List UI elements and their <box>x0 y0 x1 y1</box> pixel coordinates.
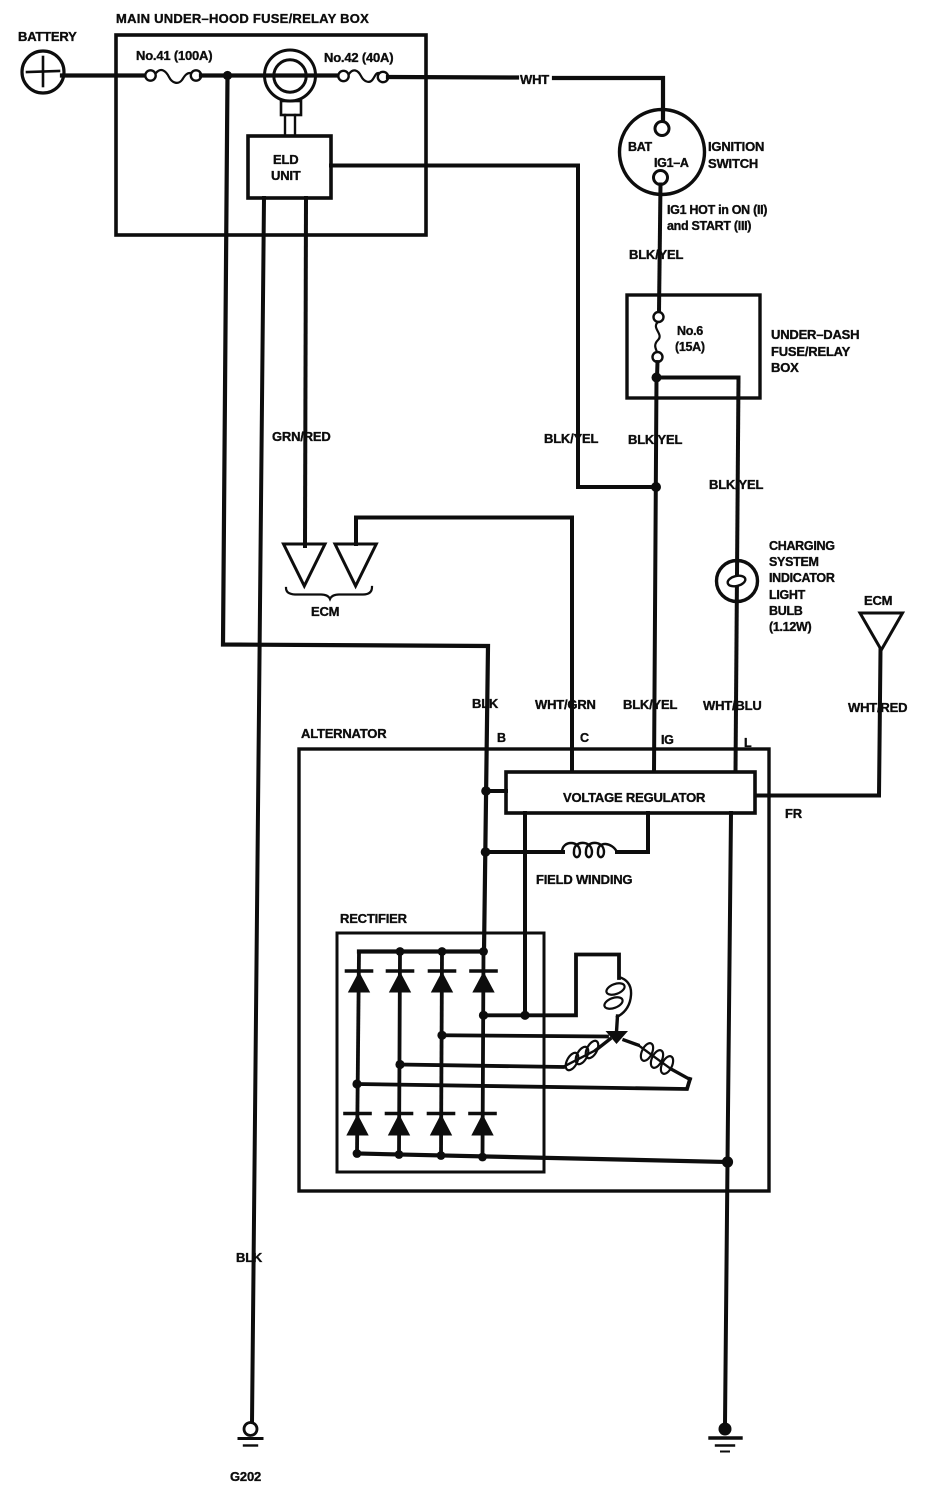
svg-text:ALTERNATOR: ALTERNATOR <box>301 726 387 741</box>
wire ECM triangle2 to alternator C (WHT/GRN) <box>356 518 572 773</box>
wire L branch down through bulb to alternator L <box>736 378 739 773</box>
node leg4 midpoint <box>479 1011 488 1020</box>
node bus leg1 bottom <box>353 1149 362 1158</box>
wire field winding to regulator bottom <box>617 813 648 852</box>
svg-text:WHT: WHT <box>520 72 549 87</box>
svg-text:WHT/BLU: WHT/BLU <box>703 698 762 713</box>
stator left phase coil <box>563 1039 610 1072</box>
diode D3 upper <box>430 971 455 993</box>
wire junction down to IG (BLK/YEL) <box>654 378 657 773</box>
svg-text:IG1 HOT in ON (II): IG1 HOT in ON (II) <box>667 203 767 217</box>
junction node B wire to field winding <box>481 847 491 857</box>
wire fuse42 to WHT label <box>388 75 517 80</box>
svg-text:BLK/YEL: BLK/YEL <box>544 431 598 446</box>
svg-text:C: C <box>580 731 589 745</box>
wire fuse6 to junction <box>655 362 660 378</box>
stator top phase coil <box>603 977 631 1032</box>
svg-text:L: L <box>744 736 752 750</box>
charging system indicator light bulb <box>717 539 835 634</box>
ELD unit <box>248 136 331 198</box>
diode D5 lower <box>345 1114 370 1136</box>
wire battery junction down-right to alternator B <box>223 76 488 953</box>
svg-text:IG1–A: IG1–A <box>654 156 689 170</box>
wire junction to L branch <box>657 376 739 380</box>
junction node B wire to regulator <box>481 786 491 796</box>
wire B to regulator <box>486 789 506 793</box>
wire ELD unit output to junction at IG wire <box>331 166 657 488</box>
voltage regulator <box>506 772 755 813</box>
svg-text:ECM: ECM <box>864 593 892 608</box>
svg-text:SWITCH: SWITCH <box>708 156 758 171</box>
fuse No.42 (40A) <box>324 50 393 82</box>
svg-text:WHT/GRN: WHT/GRN <box>535 697 596 712</box>
wire ELD unit to ground G202 (BLK) <box>252 198 264 1423</box>
node bus leg4 <box>479 947 488 956</box>
svg-text:No.41 (100A): No.41 (100A) <box>136 48 212 63</box>
alternator box <box>299 726 769 1191</box>
node regulator wire on leg4 line <box>520 1011 529 1020</box>
wire leg3 mid to stator center <box>442 1035 607 1036</box>
svg-text:FIELD WINDING: FIELD WINDING <box>536 872 632 887</box>
diode D8 lower <box>470 1114 495 1136</box>
wire leg2 mid to stator left coil <box>400 1065 563 1068</box>
wire ECM right to FR (WHT/RED) <box>755 650 881 796</box>
under-dash fuse/relay box <box>627 295 859 398</box>
svg-text:BLK: BLK <box>236 1250 263 1265</box>
svg-text:VOLTAGE REGULATOR: VOLTAGE REGULATOR <box>563 790 706 805</box>
rectifier leg 3 <box>441 952 442 1156</box>
ECM triangle right <box>860 613 903 650</box>
svg-text:BLK/YEL: BLK/YEL <box>623 697 677 712</box>
svg-text:BLK: BLK <box>472 696 499 711</box>
node bus leg2 <box>396 947 405 956</box>
wire ground bus to chassis ground <box>725 1162 728 1424</box>
fuse No.6 (15A) <box>653 312 705 362</box>
svg-text:UNDER–DASH: UNDER–DASH <box>771 327 859 342</box>
ECM triangle 1 <box>284 544 326 586</box>
svg-text:BAT: BAT <box>628 140 653 154</box>
svg-text:G202: G202 <box>230 1469 261 1484</box>
note IG1 HOT <box>667 203 767 233</box>
junction node ELD/IG <box>651 482 661 492</box>
wire ELD unit to ECM (GRN/RED) <box>305 198 306 546</box>
wire regulator/L down to ground bus <box>728 813 732 1162</box>
wire fuse41 to ELD sensor to fuse42 <box>201 73 339 77</box>
rectifier leg 1 <box>357 952 359 1154</box>
svg-text:BLK/YEL: BLK/YEL <box>629 247 683 262</box>
svg-text:FUSE/RELAY: FUSE/RELAY <box>771 344 851 359</box>
wire ignition switch to under-dash box <box>659 185 661 313</box>
wire battery to fuse No.41 <box>62 73 146 77</box>
rectifier leg 4 <box>483 952 484 1158</box>
junction node under No.41 <box>223 71 232 80</box>
svg-text:BATTERY: BATTERY <box>18 29 77 44</box>
diode D1 upper <box>347 971 372 993</box>
svg-text:SYSTEM: SYSTEM <box>769 555 819 569</box>
svg-text:BLK/YEL: BLK/YEL <box>709 477 763 492</box>
svg-text:ELD: ELD <box>273 152 298 167</box>
rectifier top bus <box>359 949 484 953</box>
stator right phase coil <box>624 1040 690 1080</box>
rectifier box <box>337 911 544 1172</box>
diode D4 upper <box>471 971 496 993</box>
svg-text:GRN/RED: GRN/RED <box>272 429 331 444</box>
node leg1 midpoint <box>352 1079 361 1088</box>
brace under ECM triangles <box>286 587 372 599</box>
svg-text:WHT/RED: WHT/RED <box>848 700 907 715</box>
svg-text:IG: IG <box>661 733 674 747</box>
diode D6 lower <box>387 1114 412 1136</box>
ground (alternator chassis) <box>710 1423 741 1452</box>
rectifier leg 2 <box>399 952 400 1155</box>
ignition switch <box>620 110 765 195</box>
ground G202 <box>230 1423 262 1485</box>
diode D7 lower <box>429 1114 454 1136</box>
wire leg1 mid to stator right coil <box>357 1079 690 1089</box>
wire regulator bottom to rectifier (leg4 mid) <box>523 813 527 1015</box>
svg-text:(1.12W): (1.12W) <box>769 620 811 634</box>
node leg2 midpoint <box>395 1060 404 1069</box>
node bus leg4 bottom <box>478 1153 487 1162</box>
svg-text:(15A): (15A) <box>675 340 705 354</box>
wire leg4 mid to stator top phase <box>484 955 620 1016</box>
svg-text:B: B <box>497 731 506 745</box>
svg-text:RECTIFIER: RECTIFIER <box>340 911 408 926</box>
ECM triangle 2 <box>335 544 376 586</box>
svg-text:IGNITION: IGNITION <box>708 139 764 154</box>
node ground bus to ground wire <box>722 1156 733 1167</box>
node bus leg3 bottom <box>437 1151 446 1160</box>
diode D2 upper <box>388 971 413 993</box>
main under-hood fuse/relay box <box>116 11 426 235</box>
rectifier bottom ground bus <box>357 1154 728 1163</box>
node bus leg2 bottom <box>395 1150 404 1159</box>
junction node in under-dash box <box>652 373 662 383</box>
svg-text:UNIT: UNIT <box>271 168 301 183</box>
svg-text:BULB: BULB <box>769 604 803 618</box>
svg-text:CHARGING: CHARGING <box>769 539 835 553</box>
svg-text:FR: FR <box>785 806 803 821</box>
node leg3 midpoint <box>437 1031 446 1040</box>
battery <box>18 29 77 93</box>
ELD current sensor <box>265 50 316 136</box>
svg-text:BOX: BOX <box>771 360 799 375</box>
field winding coil <box>562 843 617 857</box>
svg-text:No.6: No.6 <box>677 324 703 338</box>
svg-text:INDICATOR: INDICATOR <box>769 571 835 585</box>
node bus leg3 <box>438 947 447 956</box>
svg-text:ECM: ECM <box>311 604 339 619</box>
wire B junction to field winding <box>486 850 564 854</box>
svg-text:BLK/YEL: BLK/YEL <box>628 432 682 447</box>
svg-text:and START (III): and START (III) <box>667 219 751 233</box>
svg-text:MAIN UNDER–HOOD FUSE/RELAY BOX: MAIN UNDER–HOOD FUSE/RELAY BOX <box>116 11 369 26</box>
wire WHT to ignition switch <box>554 78 663 122</box>
stator Y center node <box>606 1031 629 1044</box>
svg-text:LIGHT: LIGHT <box>769 588 806 602</box>
svg-text:No.42 (40A): No.42 (40A) <box>324 50 393 65</box>
fuse No.41 (100A) <box>136 48 212 83</box>
